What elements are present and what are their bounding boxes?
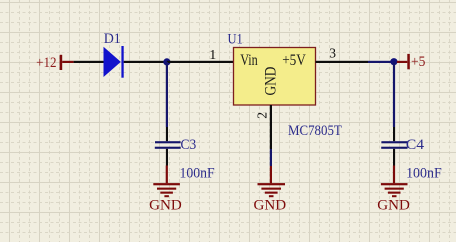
label U1 bbox=[228, 31, 243, 47]
U1 pin 2 bbox=[270, 105, 272, 149]
svg-text:GND: GND bbox=[254, 198, 287, 214]
svg-text:Vin: Vin bbox=[240, 52, 258, 69]
label D1 bbox=[104, 31, 121, 47]
pin name +5V bbox=[282, 52, 306, 69]
wire D1 cathode to node A bbox=[124, 61, 167, 63]
svg-text:100nF: 100nF bbox=[180, 166, 215, 182]
voltage regulator U1 MC7805T body bbox=[234, 48, 316, 106]
pin name GND bbox=[263, 67, 280, 96]
wire U1 pin 2 to ground bbox=[270, 149, 272, 166]
node A junction bbox=[163, 58, 170, 65]
diode D1 bbox=[104, 46, 124, 78]
label 100nF (C3) bbox=[180, 166, 215, 182]
pin number 1 bbox=[209, 48, 216, 63]
svg-text:D1: D1 bbox=[104, 31, 121, 47]
label GND (C4) bbox=[377, 198, 410, 214]
label GND (U1 pin 2) bbox=[254, 198, 287, 214]
label C4 bbox=[406, 137, 425, 153]
pin number 2 bbox=[255, 112, 270, 119]
svg-text:3: 3 bbox=[329, 45, 336, 60]
wire node A down to C3 bbox=[166, 62, 168, 127]
svg-text:100nF: 100nF bbox=[406, 166, 442, 182]
capacitor C3 bbox=[155, 127, 181, 166]
label GND (C3) bbox=[149, 198, 182, 214]
capacitor C4 bbox=[381, 127, 407, 166]
label +12 bbox=[36, 55, 56, 71]
svg-text:+12: +12 bbox=[36, 55, 56, 71]
svg-text:2: 2 bbox=[255, 112, 270, 119]
wire node B down to C4 bbox=[393, 62, 395, 127]
power terminal +5 bbox=[397, 54, 410, 69]
svg-text:+5V: +5V bbox=[282, 52, 306, 69]
svg-text:C3: C3 bbox=[181, 137, 197, 153]
wire node A to U1 pin 1 bbox=[167, 61, 204, 63]
svg-text:C4: C4 bbox=[406, 137, 425, 153]
label 100nF (C4) bbox=[406, 166, 442, 182]
svg-text:GND: GND bbox=[149, 198, 182, 214]
U1 pin 3 bbox=[316, 61, 346, 63]
svg-text:MC7805T: MC7805T bbox=[288, 123, 342, 139]
wire terminal to D1 anode bbox=[74, 61, 104, 63]
ground (C3) bbox=[153, 166, 180, 198]
ground (C4) bbox=[381, 166, 408, 198]
label MC7805T bbox=[288, 123, 342, 139]
pin name Vin bbox=[240, 52, 258, 69]
power terminal +12 bbox=[60, 55, 74, 70]
label C3 bbox=[181, 137, 197, 153]
label +5 bbox=[411, 54, 425, 70]
svg-text:GND: GND bbox=[263, 67, 280, 96]
ground (U1 pin 2) bbox=[258, 166, 286, 197]
pin number 3 bbox=[329, 45, 336, 60]
svg-text:GND: GND bbox=[377, 198, 410, 214]
svg-text:1: 1 bbox=[209, 48, 216, 63]
node B junction bbox=[390, 58, 397, 65]
wire U1 pin 3 to node B bbox=[346, 61, 398, 63]
svg-text:U1: U1 bbox=[228, 31, 243, 47]
U1 pin 1 bbox=[204, 61, 234, 63]
svg-text:+5: +5 bbox=[411, 54, 425, 70]
